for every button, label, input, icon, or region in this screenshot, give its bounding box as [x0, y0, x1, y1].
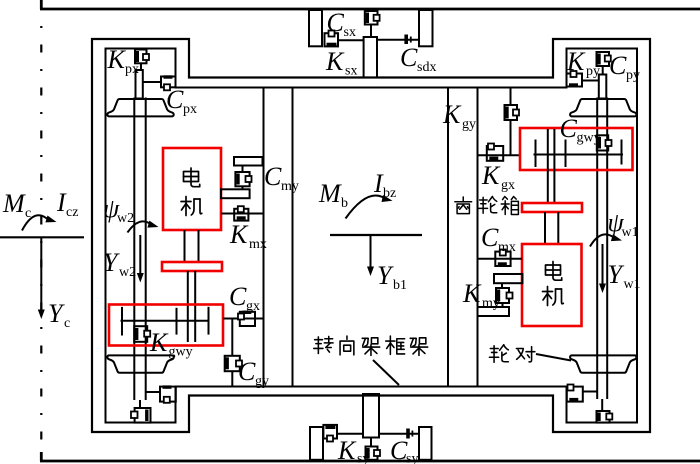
svg-text:gy: gy [462, 117, 476, 132]
svg-text:gwy: gwy [169, 345, 193, 360]
svg-text:gx: gx [246, 299, 260, 314]
C_my vertical damper [235, 166, 251, 190]
primary lateral damper bottom-right [567, 385, 597, 402]
svg-text:M: M [318, 179, 342, 208]
label motor M2 (dian ji) [184, 168, 200, 187]
wheel top-left [107, 99, 173, 116]
wheel bottom-left [107, 355, 173, 372]
spring K_sx (lateral) [325, 31, 339, 47]
svg-text:C: C [264, 162, 282, 191]
frame transom wall left-outer [263, 88, 265, 387]
svg-text:M: M [2, 189, 26, 218]
M_c curved arrow [22, 215, 50, 230]
right wheelset axle [597, 98, 607, 400]
C_my lower bar [221, 189, 250, 198]
damper C_sy piston [406, 429, 410, 439]
damper C_px (primary lateral) [143, 77, 176, 91]
damper K_py (primary lateral right) [567, 71, 599, 87]
car body top line [40, 0, 700, 9]
svg-text:px: px [183, 102, 197, 117]
svg-text:c: c [64, 316, 70, 331]
gear axis line right [534, 154, 624, 156]
pinion shaft right [548, 129, 555, 203]
motor M1 red box [522, 244, 582, 326]
svg-text:Y: Y [103, 248, 120, 277]
M_b curved arrow [346, 196, 386, 219]
spring K_mx [234, 206, 248, 220]
damper C_gy [225, 356, 242, 387]
Y_w2 arrow [139, 235, 141, 274]
primary lateral damper bottom-left [146, 387, 176, 403]
wire post to under-damper [370, 438, 372, 448]
damper under post (vertical) [366, 447, 381, 460]
primary spring bottom-right [597, 411, 613, 423]
wire K_sy to post [337, 433, 363, 435]
svg-text:sy: sy [357, 452, 369, 464]
svg-text:K: K [337, 436, 357, 464]
Y_w1 arrow [602, 244, 604, 284]
svg-text:Y: Y [48, 299, 65, 328]
wire post to C_sy to hanger [379, 433, 419, 435]
svg-text:gy: gy [255, 374, 269, 389]
primary spring bottom-left [131, 408, 151, 423]
svg-text:cz: cz [66, 205, 78, 220]
spring K_sy (lateral) [323, 425, 337, 442]
K_my vertical damper [496, 283, 513, 307]
wire C_gx gearbox to wall [223, 318, 264, 320]
svg-text:sy: sy [406, 452, 418, 464]
svg-text:w2: w2 [119, 265, 136, 280]
secondary top left hanger rect [309, 10, 322, 46]
leader line wheelset label [536, 354, 571, 361]
motor shaft upper [185, 230, 199, 262]
svg-text:C: C [400, 43, 418, 72]
svg-text:C: C [166, 85, 184, 114]
svg-text:K: K [229, 220, 249, 249]
damper C_sx (vertical, on car body) [365, 11, 380, 37]
label bogie frame (zhuan xiang jia kuang jia) [314, 336, 333, 353]
damper K_gwy on axle [134, 326, 150, 342]
damper C_sdx piston [404, 35, 408, 45]
coupling red bar left [162, 262, 222, 271]
svg-text:K: K [107, 45, 127, 74]
svg-text:sdx: sdx [417, 60, 436, 75]
secondary bottom right hanger rect [419, 427, 432, 460]
svg-text:C: C [560, 114, 578, 143]
secondary top right hanger rect [419, 10, 433, 46]
svg-text:K: K [566, 47, 586, 76]
psi_w1 curved arrow [590, 234, 617, 246]
spring K_gy hanging [505, 88, 520, 156]
wire post to C_sdx to hanger [377, 39, 419, 41]
gear tick 3 right [621, 140, 623, 165]
svg-text:b1: b1 [393, 278, 407, 293]
gear tick 2 [176, 308, 178, 335]
secondary top center post [364, 37, 377, 78]
wire K_gx wall to gearbox [478, 154, 521, 156]
damper C_mx [495, 250, 510, 267]
wire C_mx wall to motor [478, 258, 523, 260]
svg-text:K: K [481, 161, 501, 190]
wheel top-right [570, 99, 636, 116]
svg-text:b: b [341, 196, 348, 211]
motor shaft right [545, 212, 558, 244]
svg-text:py: py [626, 68, 640, 83]
wire K_sx to post [338, 39, 364, 41]
leader line frame label [373, 360, 399, 385]
Y_b1 arrow [370, 235, 372, 268]
svg-text:sx: sx [344, 25, 356, 40]
left axle journal bottom [139, 400, 141, 408]
svg-text:w1: w1 [624, 277, 641, 292]
svg-text:Y: Y [377, 261, 394, 290]
svg-text:my: my [281, 179, 299, 194]
label wheelset (lun dui) [489, 345, 508, 362]
left wheelset axle [134, 98, 145, 401]
damper C_gwy on axle [597, 135, 612, 150]
svg-text:px: px [125, 62, 139, 77]
K_my lower bar [478, 307, 510, 316]
svg-text:c: c [25, 206, 31, 221]
svg-text:gwy: gwy [577, 131, 601, 146]
svg-text:K: K [442, 100, 462, 129]
bogie frame outer contour [92, 39, 650, 432]
car body centerline (dash-dot) [40, 26, 42, 452]
bogie axis bar [330, 234, 422, 236]
svg-text:sx: sx [345, 64, 357, 79]
damper C_gx [238, 312, 255, 326]
svg-text:K: K [462, 279, 482, 308]
gear tick 2 right [565, 140, 567, 168]
svg-text:C: C [238, 357, 256, 386]
C_my top bar [234, 157, 263, 166]
right axlebox post [599, 75, 607, 99]
label motor M1 (dian ji) [546, 262, 562, 281]
svg-text:gx: gx [501, 178, 515, 193]
spring K_gx [487, 144, 503, 161]
svg-text:mx: mx [498, 240, 516, 255]
psi_w2 curved arrow [128, 221, 152, 232]
pinion shaft left [188, 271, 195, 342]
gear axis line [121, 320, 210, 322]
svg-text:w1: w1 [622, 225, 639, 240]
svg-text:my: my [482, 296, 500, 311]
secondary bottom center post [363, 394, 379, 438]
gear tick 1 right [535, 140, 537, 168]
svg-text:C: C [327, 8, 345, 37]
svg-text:py: py [586, 64, 600, 79]
gear tick 1 [121, 307, 123, 336]
wire C_gx down to C_gy [231, 319, 233, 356]
bogie frame inner contour [106, 49, 638, 423]
svg-text:w2: w2 [117, 211, 134, 226]
car body bottom line [40, 452, 700, 461]
left axlebox post [136, 70, 143, 99]
wheel bottom-right [570, 355, 636, 372]
svg-text:K: K [325, 47, 345, 76]
motor M2 red box [163, 148, 221, 230]
svg-text:C: C [229, 282, 247, 311]
spring C_py (primary vertical right) [597, 52, 611, 75]
gear tick 3 [208, 307, 210, 335]
svg-text:C: C [609, 51, 627, 80]
gearbox red box right [520, 128, 633, 170]
frame transom wall right-inner [447, 88, 449, 387]
Y_c arrow [40, 237, 42, 310]
coupling red bar right [522, 203, 582, 212]
car body axis tick [0, 236, 84, 238]
spring K_px (primary vertical) [135, 50, 149, 71]
svg-text:mx: mx [249, 237, 267, 252]
svg-text:Y: Y [608, 260, 625, 289]
frame transom wall left-inner [292, 88, 294, 387]
K_my top bar [494, 274, 523, 283]
svg-text:C: C [481, 223, 499, 252]
svg-text:bz: bz [383, 186, 396, 201]
gearbox red box left [109, 305, 223, 346]
frame transom wall right-outer [477, 88, 479, 387]
wire K_mx motor to wall [221, 213, 264, 215]
right axle journal bottom [601, 399, 603, 411]
svg-text:K: K [149, 328, 169, 357]
secondary bottom left hanger rect [310, 427, 323, 460]
label gearbox (chi lun xiang) [455, 197, 472, 214]
